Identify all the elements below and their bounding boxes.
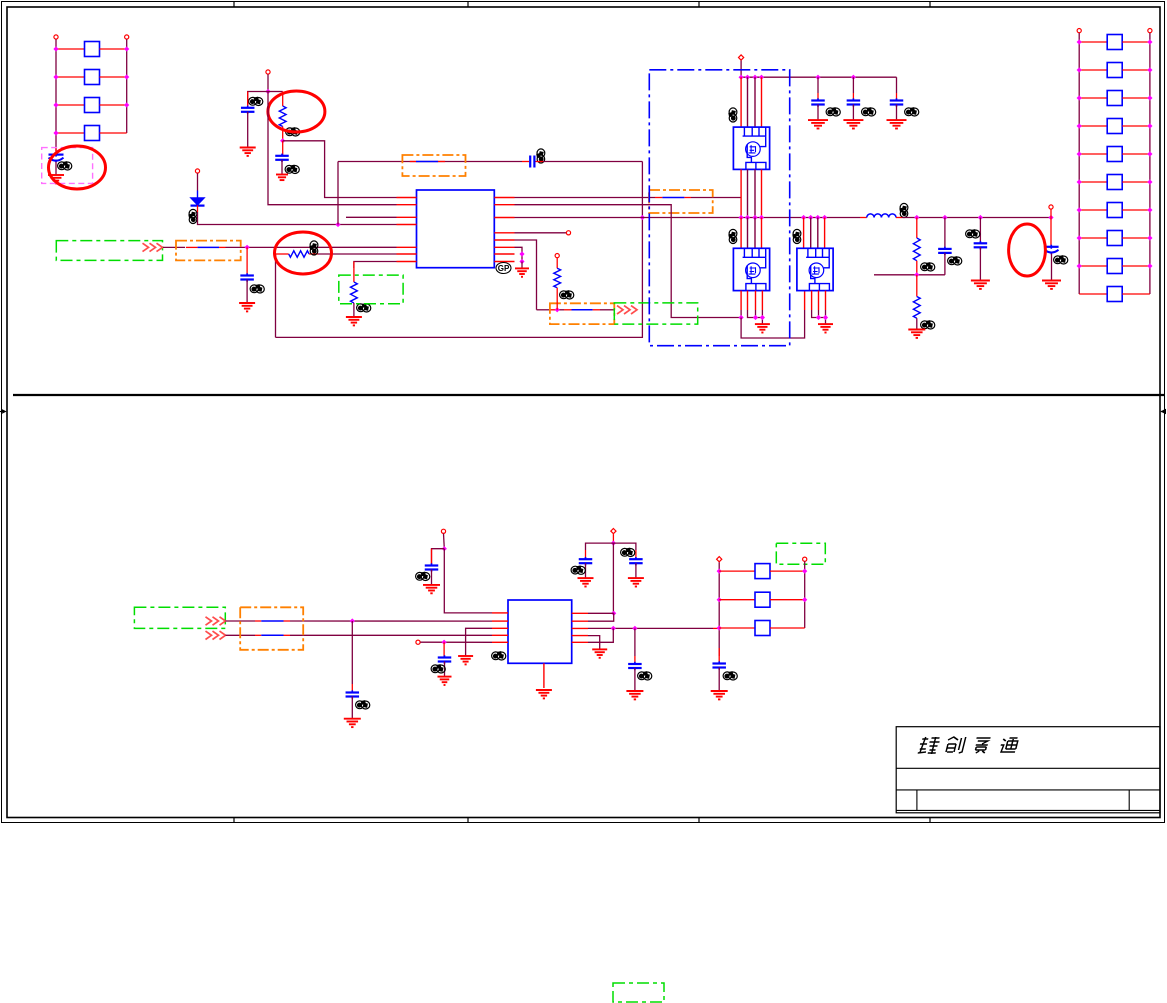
junction RP1 left row 2 [53,74,58,79]
wire U1 gate low [515,205,742,318]
label C11 [431,665,445,673]
wire divider mid [874,274,945,276]
junction RP2 left row 6 [1077,179,1082,184]
terminal V2 [441,529,445,533]
resistor R1 lead top [282,92,284,107]
capacitor C10 [346,621,360,718]
resistor RP1 element 1 [85,42,100,57]
junction RP3 left row 2 [717,597,722,602]
wire conn row2 [226,634,493,636]
resistor R5 lead top [916,218,918,239]
label R3 [357,304,371,312]
resistor RP2 element 1 lead right [1122,41,1150,43]
capacitor C2 [241,92,255,148]
junction swbus x741.1 [739,215,744,220]
capacitor C7 [974,218,988,281]
junction conn/C5 [245,245,250,250]
wire U1 pin261 to R3 [354,262,397,269]
pin U1 right y240 [494,239,514,241]
resistor R4 lead top [556,258,558,268]
junction rail x741.1 [739,75,744,80]
capacitor C9 [425,549,439,585]
label C14 [638,672,652,680]
junction rail x755 [752,75,757,80]
junction RP2 right row 6 [1147,179,1152,184]
terminal RP3 left [717,557,722,562]
resistor R3 lead bottom [353,303,355,317]
resistor R1 [279,106,286,127]
resistor R6 lead bottom [916,318,918,329]
resistor RP2 element 9 lead right [1122,265,1150,267]
resistor R4 [554,268,561,288]
resistor RP3 element 3 lead left [719,627,755,629]
junction RP2 right row 4 [1147,123,1152,128]
ground R3 [346,317,362,325]
resistor RP2 element 10 lead right [1122,293,1150,295]
junction R3/C14 [632,626,637,631]
resistor RP2 element 7 [1107,203,1122,218]
resistor RP2 element 4 [1107,119,1122,134]
resistor RP2 element 6 lead right [1122,181,1150,183]
pin U1 left y254 [397,253,417,255]
diode D1 [191,191,205,206]
junction rail x747.5 [745,75,750,80]
highlight ellipse 1 (red) [49,146,106,189]
resistor RP2 element 7 lead right [1122,209,1150,211]
wire VIN2 rail down to pin [268,92,397,205]
terminal VOUT [1049,205,1053,209]
resistor R2 lead right [309,253,318,255]
junction Q2 s2 [753,315,758,320]
wire U2 pinR5 tie [588,628,613,642]
resistor R1 lead bottom [282,127,284,141]
wire Q2 drain link [741,291,805,338]
capacitor C12 [579,550,593,578]
transistor Q2 legs bottom [741,291,762,324]
ground U2 [536,690,552,698]
connector box green 5 [776,543,825,564]
label C6 [948,257,962,265]
junction vout x980.4 [978,215,983,220]
resistor RP2 element 6 [1107,175,1122,190]
resistor RP2 element 8 lead right [1122,237,1150,239]
power stage box (blue dash-dot) [649,70,789,346]
RP3 right rail [804,561,806,628]
label R1 [286,128,300,136]
junction RP2 left row 1 [1077,39,1082,44]
ground U1 [515,268,529,276]
RP3 left rail [718,562,720,656]
resistor RP2 element 7 lead left [1079,209,1107,211]
junction pin642/C11 [442,640,447,645]
RP2 right rail [1149,33,1151,294]
terminal pin232 [566,231,570,235]
transistor Q2 legs top [741,218,761,249]
wire U2 pinR2 [588,613,614,621]
title text Wistron (CJK strokes) [918,737,1019,754]
label C7 [966,230,980,238]
RP1 right rail wire [126,39,128,133]
ground Cin3 [887,120,907,128]
label R6 [921,321,935,329]
resistor RP2 element 1 lead left [1079,41,1107,43]
ferrite box fb (orange dash-dot) [550,303,614,324]
label R5 [921,263,935,271]
pin U2 right y621.2 [572,620,588,622]
terminal RP1 right [125,35,129,39]
resistor RP3 element 1 lead left [719,570,755,572]
resistor RP1 element 2 lead left [56,76,85,78]
wire U2 pin628 gnd [466,628,492,655]
junction vout x1051 [1048,215,1053,220]
resistor RP3 element 2 [755,592,770,607]
pin U2 left y628.3 [492,627,508,629]
resistor RP3 element 2 lead left [719,599,755,601]
transistor Q2 [733,248,769,290]
resistor R2 (in ellipse) [289,251,309,257]
label Q1 [729,108,737,122]
resistor RP1 element 4 [85,126,100,141]
chevrons 2 [617,306,637,314]
resistor RP3 element 3 lead right [770,627,805,629]
wire V2 to C9 [432,549,445,564]
resistor RP1 element 4 lead left [56,132,85,134]
resistor RP1 element 2 [85,70,100,85]
label C12 [571,566,585,574]
resistor R3 [351,282,358,303]
junction swbus x761.5 [759,215,764,220]
wire input loop riser [275,254,277,337]
label C8 [1054,256,1068,264]
resistor RP1 element 3 lead right [100,104,127,106]
diode D1 lead bottom [197,205,199,212]
pin U1 left y224.5 [397,224,417,226]
terminal pin642 [416,640,420,644]
resistor RP2 element 9 [1107,259,1122,274]
junction RP2 right row 9 [1147,263,1152,268]
resistor RP2 element 2 lead right [1122,69,1150,71]
feedback box green 2 [339,275,403,304]
terminal RP3 right [803,557,807,561]
wire D1 to IC pin4 [198,212,397,225]
ground C7 [971,281,990,289]
ground Cin1 [808,120,828,128]
pin U1 right y254 [494,253,514,255]
resistor RP1 element 2 lead right [100,76,127,78]
connector box green 4 [134,607,225,628]
wire U1 gnd pins [515,247,523,261]
wire VIN2 down [267,74,269,91]
ground C13 [628,578,644,586]
resistor RP2 element 3 [1107,91,1122,106]
junction R1/C3 [280,138,285,143]
ground Q2 [755,324,770,332]
RP1 left rail wire [55,39,57,151]
pin U2 left y612.9 [492,612,508,614]
label C9 [416,572,430,580]
junction rail x853.4 [851,75,856,80]
ground Q3 [818,324,833,332]
inductor L1 [867,214,896,218]
junction vout x944.9 [942,215,947,220]
wire U2 pinR1 [588,612,614,614]
connector box green 1 [56,241,162,261]
transistor Q3 legs bottom [812,291,826,324]
resistor RP2 element 3 lead right [1122,97,1150,99]
pin U2 right y628.4 [572,627,588,629]
resistor RP2 element 3 lead left [1079,97,1107,99]
pin U2 left y642.3 [492,641,508,643]
junction RP1 left row 4 [53,130,58,135]
junction gnd pin3 [519,259,524,264]
pin U2 right y635.6 [572,635,588,637]
pin U2 right y642.3 [572,641,588,643]
op-amp/controller U2 [508,600,572,663]
wire switch bus [515,217,867,219]
capacitor C3 [275,141,289,174]
resistor RP2 element 8 lead left [1079,237,1107,239]
resistor RP3 element 3 [755,621,770,636]
ground U2 pin628 [458,656,473,664]
title block cell divider right [1128,790,1130,811]
connector box green 6 (bottom) [613,983,664,1002]
junction RP3 right row 2 [802,597,807,602]
label D1 [189,209,197,223]
junction swbus x747.5 [745,215,750,220]
label C15 [723,672,737,680]
pin U2 left y621.1 [492,620,508,622]
ground C15 [711,691,728,699]
resistor RP2 element 5 lead right [1122,153,1150,155]
terminal R4 top [555,254,559,258]
border zone ticks [234,1,930,823]
pin U1 left y247.3 [397,246,417,248]
junction RP3 left row 3 [717,625,722,630]
junction vout x916.8 [914,215,919,220]
junction RP2 left row 3 [1077,95,1082,100]
capacitor C15 [712,648,726,691]
pin U1 right y204.7 [494,204,514,206]
resistor RP3 element 1 [755,564,770,579]
junction RP3 left row 1 [717,569,722,574]
wire D1 top [197,173,199,190]
junction RP2 left row 5 [1077,151,1082,156]
title block row line 3 [896,809,1160,811]
label C13 [621,548,635,556]
capacitor C14 [628,628,642,690]
wire U1 pin y240 to fb [515,240,537,310]
wire node R1C3 to IC pin1 [283,141,397,198]
pin U1 right y197.5 [494,197,514,199]
junction Q2 s1 [739,315,744,320]
resistor R2 lead left [276,253,289,255]
junction RP2 left row 7 [1077,207,1082,212]
ferrite box right (orange dash-dot) [649,190,713,213]
pin U1 right y261.5 [494,261,514,263]
wire output bus [896,217,1051,219]
wire V3 right branch [613,543,636,550]
capacitor C4 (series) [530,156,534,168]
terminal V3 [611,529,616,534]
title block row line 1 [896,767,1160,769]
resistor RP2 element 8 [1107,231,1122,246]
title block cell divider left [916,790,918,811]
resistor RP2 element 5 [1107,147,1122,162]
wire top bus right [536,161,643,163]
resistor RP3 element 2 lead right [770,599,805,601]
junction RP2 right row 8 [1147,235,1152,240]
label R2 [310,241,318,255]
terminal RP2 right [1148,29,1152,33]
capacitor Cin2 [847,77,861,119]
label C10 [356,701,370,709]
resistor RP3 element 1 lead right [770,570,805,572]
border frame inner [7,7,1160,818]
wire connector to U1 pin [163,246,397,248]
resistor RP2 element 4 lead left [1079,125,1107,127]
junction RP3 right row 1 [802,569,807,574]
label Q3 [793,229,801,243]
junction RP1 right row 1 [124,46,129,51]
junction swbus x810.7 [808,215,813,220]
wire pin642 [420,641,492,643]
wire VOUT terminal [1050,209,1052,217]
junction gnd pin2 [519,251,524,256]
chevrons 4 [206,631,226,639]
resistor R5 lead bottom [916,261,918,275]
ferrite box left (orange dash-dot) [176,241,241,261]
resistor RP2 element 10 [1107,287,1122,302]
resistor R3 lead top [353,262,355,283]
wire to R1 [268,91,283,93]
junction conn row1 [350,618,355,623]
capacitor C8 (polarized) [1044,218,1059,281]
pin U1 left y204.7 [397,204,417,206]
junction VIN2 [265,89,270,94]
label C3 [285,165,299,173]
junction fb/R4 [555,307,560,312]
capacitor C13 [629,550,643,578]
chevrons 1 [143,243,163,251]
terminal VIN2 [266,70,270,74]
wire U1 pin y217 stub [346,216,397,218]
junction rail x761.5 [759,75,764,80]
junction swbus x803.6 [801,215,806,220]
junction R3/R5tie [611,626,616,631]
junction RP2 left row 9 [1077,263,1082,268]
resistor R6 [913,297,920,319]
transistor Q1 legs top [741,77,761,127]
resistor RP1 element 3 lead left [56,104,85,106]
resistor RP2 element 6 lead left [1079,181,1107,183]
pin U2 left y635.3 [492,634,508,636]
wire input loop [276,162,643,338]
wire U1 gate high [515,197,742,199]
pin U1 left y217.3 [397,216,417,218]
junction RP1 right row 3 [124,102,129,107]
resistor RP1 element 1 lead left [56,48,85,50]
transistor Q3 legs top [804,218,825,249]
pin U1 right y217.5 [494,217,514,219]
highlight ellipse 3 (red) [275,232,332,274]
label Cin2 [862,108,876,116]
resistor RP2 element 10 lead left [1079,293,1107,295]
junction RP2 right row 3 [1147,95,1152,100]
resistor RP2 element 1 [1107,35,1122,50]
label GP [496,263,511,274]
wire U2 pinR3 long [588,627,719,629]
junction Q3 s2 [816,315,821,320]
label C5 [250,285,264,293]
label Cin1 [826,108,840,116]
junction rail x818 [815,75,820,80]
ground C11 [438,677,452,685]
svg-text:GP: GP [498,264,510,273]
ground C9 [423,585,440,593]
capacitor Cin1 [811,77,825,119]
RP2 left rail [1078,33,1080,294]
transistor Q3 [797,248,833,290]
ground C10 [344,719,361,727]
ground C14 [626,691,643,699]
resistor RP2 element 2 lead left [1079,69,1107,71]
transistor Q1 [733,127,769,169]
ground Cin2 [843,120,863,128]
pin U1 left y261.5 [397,261,417,263]
junction RP1 left row 3 [53,102,58,107]
junction RP2 right row 2 [1147,67,1152,72]
junction RP2 left row 8 [1077,235,1082,240]
wire V3 left branch [586,543,614,550]
resistor RP2 element 5 lead left [1079,153,1107,155]
transistor Q1 legs bottom [741,169,761,217]
wire V3 rail [612,543,614,613]
resistor R5 [913,238,920,261]
label C4 [537,149,545,163]
op-amp/controller U1 [417,190,495,268]
pin U1 left y197.5 [397,197,417,199]
wire input rail [741,76,897,78]
wire U1 pin y232 to terminal [515,232,567,234]
highlight box (pink dashed) [42,148,93,184]
junction RP2 right row 1 [1147,39,1152,44]
label Q2 [729,229,737,243]
wire to C2 [248,92,268,108]
left zone arrow [0,410,6,414]
wire U2 pinR4 gnd [588,636,600,649]
junction Q2 s3 [760,315,765,320]
resistor RP1 element 3 [85,98,100,113]
terminal D1 [195,169,199,173]
terminal RP2 left [1077,29,1081,33]
wire V2 drop [443,534,446,549]
ground U2 pinR4 [592,649,607,657]
label L1 [900,203,908,217]
wire blue segment in ferrite box [410,161,445,163]
junction RP2 left row 4 [1077,123,1082,128]
wire vertical x338 [337,162,339,225]
junction swbus x817.8 [815,215,820,220]
title block outline [896,727,1160,813]
ground R6 [908,330,925,338]
right zone arrow [1161,410,1166,414]
label R4 [560,291,574,299]
label U2 [492,652,506,660]
resistor R6 lead top [916,275,918,297]
ground C2 [240,148,256,156]
resistor RP2 element 2 [1107,63,1122,78]
pin U1 right y247.3 [494,246,514,248]
